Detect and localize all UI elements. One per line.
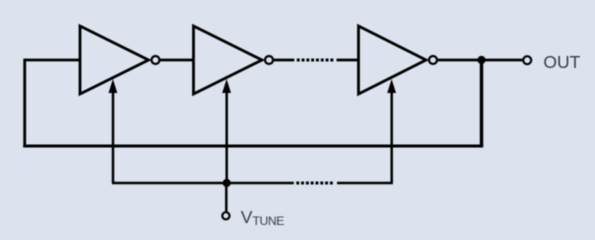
svg-text:V: V [241, 207, 253, 227]
feedback wire: bottom horizontal [23, 145, 483, 148]
feedback wire: right vertical from node [480, 60, 483, 146]
inverter U3 [359, 26, 427, 94]
wire U3 to output node [438, 59, 482, 62]
VTUNE terminal (open circle) [222, 212, 229, 219]
inverter U2 [194, 26, 263, 94]
junction node at output [477, 56, 485, 64]
feedback wire: left vertical [23, 59, 26, 148]
wire input to first inverter [25, 59, 80, 62]
svg-text:TUNE: TUNE [253, 214, 285, 228]
vtune rail left segment [112, 182, 294, 184]
inverter U1 [80, 26, 149, 94]
wire U1 to U2 [161, 59, 194, 62]
wire U2 output solid [274, 59, 294, 62]
vtune terminal stub [225, 183, 228, 212]
vtune rail dashed segment [296, 182, 334, 185]
OUT terminal (open circle) [523, 56, 531, 64]
inverter U3 output bubble [429, 56, 437, 64]
wire dashed (omitted stages) [297, 59, 334, 62]
wire node to OUT terminal [482, 59, 523, 62]
inverter U1 output bubble [152, 56, 160, 64]
tune arrow into U1 [112, 90, 115, 183]
svg-text:OUT: OUT [543, 52, 580, 72]
tune arrow into U3 [390, 90, 393, 183]
inverter U2 output bubble [265, 56, 273, 64]
vtune rail right segment [337, 182, 393, 184]
junction node on vtune rail [223, 179, 231, 187]
wire into U3 [337, 59, 359, 62]
tune arrow into U2 [225, 90, 228, 183]
